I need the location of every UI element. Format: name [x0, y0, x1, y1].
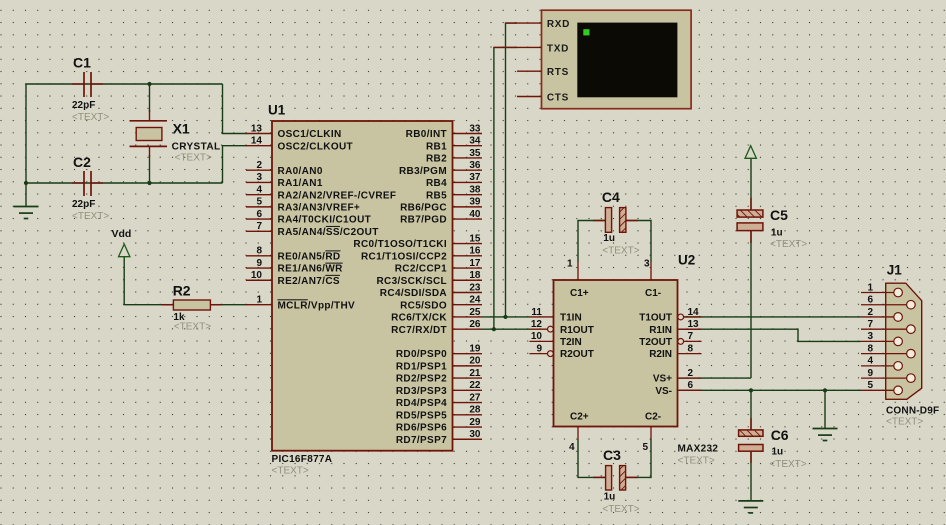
svg-text:26: 26 — [469, 319, 481, 330]
svg-text:RB4: RB4 — [426, 178, 447, 189]
svg-text:VS-: VS- — [655, 386, 672, 397]
U1 pin 10 RE2/AN7/CS — [246, 270, 340, 287]
U1 pin 13 OSC1/CLKIN — [246, 123, 342, 140]
svg-text:19: 19 — [469, 343, 481, 354]
wire C4 right to U2 pin3 — [626, 221, 651, 263]
svg-text:RB5: RB5 — [426, 190, 447, 201]
svg-text:<TEXT>: <TEXT> — [175, 153, 212, 164]
svg-text:Vdd: Vdd — [112, 228, 132, 240]
svg-text:RC1/T1OSI/CCP2: RC1/T1OSI/CCP2 — [361, 251, 447, 262]
U2 pin 1 C1+ top stub — [567, 259, 578, 281]
wire bottom rail up to OSC2 pin 14 — [223, 146, 248, 183]
wire terminal RXD vertical — [506, 23, 518, 317]
crystal X1 — [130, 110, 168, 157]
wire RC7/RX to R1OUT — [482, 328, 530, 330]
svg-text:C4: C4 — [602, 189, 620, 205]
wire ground lead left — [25, 183, 27, 207]
svg-text:RC2/CCP1: RC2/CCP1 — [395, 264, 447, 275]
capacitor C2 — [72, 171, 103, 196]
svg-text:4: 4 — [569, 442, 575, 453]
wire R1IN to J1 pin3 — [678, 329, 862, 341]
svg-text:C1+: C1+ — [570, 288, 589, 299]
U1 pin 4 RA2/AN2/VREF-/CVREF — [246, 184, 396, 201]
svg-text:2: 2 — [688, 368, 694, 379]
svg-text:37: 37 — [469, 172, 481, 183]
capacitor C1 — [72, 72, 103, 97]
U1 pin 20 RD1/PSP1 — [396, 356, 482, 373]
resistor R2 — [162, 300, 223, 310]
svg-text:2: 2 — [256, 160, 262, 171]
svg-text:22pF: 22pF — [72, 199, 95, 210]
wire power arrow to C5 top — [750, 159, 752, 210]
svg-text:RB7/PGD: RB7/PGD — [400, 215, 447, 226]
svg-text:14: 14 — [688, 307, 700, 318]
U1 pin 36 RB3/PGM — [399, 160, 482, 177]
terminal pin CTS — [517, 92, 569, 103]
svg-text:24: 24 — [469, 295, 481, 306]
wire top rail down to OSC1 pin 13 — [223, 84, 248, 134]
svg-text:<TEXT>: <TEXT> — [770, 239, 807, 250]
svg-text:RE2/AN7/CS: RE2/AN7/CS — [278, 276, 340, 287]
U2 pin 3 C1- top stub — [644, 259, 651, 281]
J1 pin 7 — [861, 319, 915, 334]
svg-text:C1: C1 — [73, 55, 91, 71]
svg-text:RB6/PGC: RB6/PGC — [400, 202, 447, 213]
svg-text:3: 3 — [867, 331, 873, 342]
wire crystal top lead — [149, 84, 151, 112]
svg-text:RC5/SDO: RC5/SDO — [400, 300, 447, 311]
U1 pin 16 RC1/T1OSI/CCP2 — [361, 246, 482, 263]
U1 pin 35 RB2 — [426, 148, 482, 165]
U1 pin 38 RB5 — [426, 184, 482, 201]
svg-text:CONN-D9F: CONN-D9F — [886, 406, 939, 417]
svg-text:7: 7 — [867, 319, 873, 330]
terminal pin RXD — [506, 19, 571, 30]
svg-text:8: 8 — [688, 343, 694, 354]
U1 pin 3 RA1/AN1 — [246, 172, 323, 189]
svg-text:4: 4 — [867, 356, 873, 367]
U1 pin 6 RA4/T0CKI/C1OUT — [246, 209, 371, 226]
U2 pin 5 C2- bottom stub — [642, 427, 651, 454]
svg-text:11: 11 — [531, 307, 542, 318]
node junction TXD-RX net — [492, 327, 496, 331]
U1 pin 1 MCLR/Vpp/THV — [246, 295, 355, 312]
svg-text:6: 6 — [256, 209, 262, 220]
J1 pin 6 — [861, 295, 915, 310]
capacitor C5 — [737, 198, 763, 243]
wire C1 top rail to OSC1 net — [26, 83, 223, 85]
U1 pin 25 RC6/TX/CK — [391, 307, 482, 324]
wire C6 top lead — [750, 390, 752, 430]
svg-text:<TEXT>: <TEXT> — [272, 466, 309, 477]
svg-text:VS+: VS+ — [653, 374, 672, 385]
U1 pin 21 RD2/PSP2 — [396, 368, 482, 385]
svg-text:T2OUT: T2OUT — [639, 337, 672, 348]
svg-text:RD2/PSP2: RD2/PSP2 — [396, 374, 447, 385]
svg-text:4: 4 — [256, 184, 262, 195]
svg-text:RE0/AN5/RD: RE0/AN5/RD — [278, 251, 341, 262]
svg-text:RA3/AN3/VREF+: RA3/AN3/VREF+ — [278, 202, 361, 213]
U2 pin 12 R1OUT — [530, 319, 594, 336]
svg-text:R2OUT: R2OUT — [560, 349, 594, 360]
J1 pin 2 — [861, 307, 902, 322]
capacitor C6 — [739, 418, 763, 463]
svg-text:35: 35 — [469, 148, 481, 159]
wire VS- to J1 pin5 — [678, 389, 862, 391]
wire C2 bottom rail — [26, 182, 223, 184]
svg-text:C3: C3 — [603, 447, 621, 463]
svg-text:C1-: C1- — [645, 288, 661, 299]
wire terminal TXD vertical — [494, 47, 517, 329]
svg-text:X1: X1 — [173, 121, 190, 137]
svg-text:RD7/PSP7: RD7/PSP7 — [396, 435, 447, 446]
svg-text:RD3/PSP3: RD3/PSP3 — [396, 386, 447, 397]
svg-text:5: 5 — [867, 380, 873, 391]
svg-text:C2: C2 — [73, 154, 91, 170]
svg-text:<TEXT>: <TEXT> — [886, 417, 923, 428]
svg-text:5: 5 — [642, 442, 648, 453]
svg-text:7: 7 — [688, 331, 694, 342]
U1 pin 37 RB4 — [426, 172, 482, 189]
svg-text:CRYSTAL: CRYSTAL — [172, 142, 221, 153]
ground (below VS- net near J1) — [813, 429, 838, 441]
node junction ground rail — [24, 181, 28, 185]
U1 pin 26 RC7/RX/DT — [391, 319, 482, 336]
svg-text:RC4/SDI/SDA: RC4/SDI/SDA — [380, 288, 447, 299]
U1 pin 34 RB1 — [426, 136, 482, 153]
capacitor C3 — [593, 466, 638, 490]
svg-text:18: 18 — [469, 270, 481, 281]
svg-text:9: 9 — [536, 343, 542, 354]
U2 pin 2 VS+ — [653, 368, 702, 385]
svg-text:R1IN: R1IN — [649, 325, 672, 336]
wire C5 bottom to VS+ net — [750, 231, 752, 379]
U1 pin 30 RD7/PSP7 — [396, 429, 482, 446]
svg-text:T2IN: T2IN — [560, 337, 582, 348]
svg-text:RC0/T1OSO/T1CKI: RC0/T1OSO/T1CKI — [353, 239, 447, 250]
op-amp U1 PIC16F877A body — [272, 121, 453, 451]
svg-text:R2IN: R2IN — [649, 349, 672, 360]
virtual terminal body — [542, 10, 692, 109]
node junction VS- ground — [823, 388, 827, 392]
U2 pin 7 T2OUT — [639, 331, 701, 348]
svg-text:<TEXT>: <TEXT> — [72, 211, 109, 222]
svg-text:7: 7 — [256, 221, 262, 232]
power arrow (VCC to C5) — [745, 146, 756, 159]
svg-text:T1IN: T1IN — [560, 313, 582, 324]
svg-text:36: 36 — [469, 160, 481, 171]
svg-text:25: 25 — [469, 307, 481, 318]
U2 pin 6 VS- — [655, 380, 701, 397]
svg-text:C5: C5 — [770, 207, 788, 223]
node junction C2-crystal bottom — [147, 181, 151, 185]
svg-text:R1OUT: R1OUT — [560, 325, 594, 336]
svg-text:<TEXT>: <TEXT> — [72, 112, 109, 123]
svg-text:TXD: TXD — [547, 43, 569, 54]
U1 pin 18 RC3/SCK/SCL — [376, 270, 482, 287]
U2 pin 4 C2+ bottom stub — [569, 427, 578, 454]
op-amp U2 MAX232 body — [554, 280, 678, 427]
svg-text:8: 8 — [256, 246, 262, 257]
svg-text:RB3/PGM: RB3/PGM — [399, 166, 447, 177]
svg-text:13: 13 — [251, 123, 263, 134]
svg-text:29: 29 — [469, 417, 481, 428]
wire crystal bottom lead — [149, 155, 151, 183]
svg-text:U1: U1 — [268, 103, 286, 118]
svg-text:14: 14 — [251, 136, 263, 147]
svg-text:13: 13 — [688, 319, 700, 330]
wire U2 pin4 to C3 left — [578, 439, 606, 477]
svg-text:10: 10 — [251, 270, 263, 281]
U2 pin 11 T1IN — [530, 307, 582, 324]
svg-text:22: 22 — [469, 380, 481, 391]
virtual terminal cursor — [583, 29, 589, 35]
ground (below C6) — [738, 501, 763, 513]
svg-text:30: 30 — [469, 429, 481, 440]
wire T1OUT to J1 pin2 — [684, 316, 861, 318]
svg-text:CTS: CTS — [547, 92, 569, 103]
svg-text:9: 9 — [867, 368, 873, 379]
svg-text:<TEXT>: <TEXT> — [769, 459, 806, 470]
svg-text:RA2/AN2/VREF-/CVREF: RA2/AN2/VREF-/CVREF — [278, 190, 397, 201]
U1 pin 28 RD5/PSP5 — [396, 405, 482, 422]
node junction C1-crystal top — [147, 82, 151, 86]
svg-text:RD0/PSP0: RD0/PSP0 — [396, 349, 447, 360]
terminal pin TXD — [494, 43, 569, 54]
svg-text:<TEXT>: <TEXT> — [174, 322, 211, 333]
svg-text:<TEXT>: <TEXT> — [602, 504, 639, 515]
U1 pin 27 RD4/PSP4 — [396, 392, 482, 409]
svg-text:8: 8 — [867, 343, 873, 354]
svg-text:1: 1 — [256, 295, 262, 306]
U1 pin 24 RC5/SDO — [400, 295, 482, 312]
svg-text:2: 2 — [867, 307, 873, 318]
svg-text:<TEXT>: <TEXT> — [602, 246, 639, 257]
U1 pin 15 RC0/T1OSO/T1CKI — [353, 233, 482, 250]
U1 pin 7 RA5/AN4/SS/C2OUT — [246, 221, 379, 238]
svg-text:RD1/PSP1: RD1/PSP1 — [396, 361, 447, 372]
U1 pin 33 RB0/INT — [406, 123, 482, 140]
svg-text:RE1/AN6/WR: RE1/AN6/WR — [278, 264, 344, 275]
wire ground lead right of J1 — [824, 390, 826, 428]
node junction RXD-TX net — [503, 315, 507, 319]
wire Vdd to R2 left — [124, 257, 173, 305]
U1 pin 39 RB6/PGC — [400, 197, 482, 214]
connector J1 CONN-D9F body — [886, 283, 922, 399]
wire VS+ to C5 — [678, 377, 752, 379]
svg-text:RD5/PSP5: RD5/PSP5 — [396, 410, 447, 421]
svg-text:RB2: RB2 — [426, 154, 447, 165]
svg-text:27: 27 — [469, 392, 481, 403]
terminal pin RTS — [517, 67, 569, 78]
wire R2 right to MCLR pin 1 — [210, 304, 247, 306]
svg-text:20: 20 — [469, 356, 481, 367]
power Vdd arrow — [119, 244, 130, 257]
svg-text:MAX232: MAX232 — [678, 444, 719, 455]
svg-text:RB0/INT: RB0/INT — [406, 129, 447, 140]
svg-text:1: 1 — [867, 282, 873, 293]
svg-text:T1OUT: T1OUT — [639, 313, 672, 324]
svg-text:<TEXT>: <TEXT> — [678, 456, 715, 467]
svg-text:40: 40 — [469, 209, 481, 220]
svg-text:6: 6 — [688, 380, 694, 391]
svg-text:33: 33 — [469, 123, 481, 134]
svg-text:17: 17 — [469, 258, 481, 269]
virtual terminal screen — [577, 23, 677, 98]
svg-text:3: 3 — [256, 172, 262, 183]
U2 pin 13 R1IN — [649, 319, 701, 336]
U2 pin 10 T2IN — [530, 331, 582, 348]
svg-text:21: 21 — [469, 368, 481, 379]
svg-text:R2: R2 — [173, 282, 191, 298]
svg-text:39: 39 — [469, 197, 481, 208]
J1 pin 4 — [861, 356, 902, 371]
J1 pin 1 — [861, 282, 902, 297]
U2 pin 8 R2IN — [649, 343, 701, 360]
svg-text:15: 15 — [469, 233, 481, 244]
svg-text:C2-: C2- — [645, 411, 661, 422]
svg-text:1u: 1u — [603, 233, 615, 244]
J1 pin 8 — [861, 343, 915, 358]
svg-text:RB1: RB1 — [426, 141, 447, 152]
svg-text:3: 3 — [644, 259, 650, 270]
svg-text:RTS: RTS — [547, 67, 569, 78]
svg-text:12: 12 — [531, 319, 543, 330]
svg-text:1u: 1u — [772, 446, 784, 457]
svg-text:RC6/TX/CK: RC6/TX/CK — [391, 313, 447, 324]
svg-text:RA0/AN0: RA0/AN0 — [278, 166, 323, 177]
svg-text:RD4/PSP4: RD4/PSP4 — [396, 398, 447, 409]
svg-text:OSC2/CLKOUT: OSC2/CLKOUT — [278, 141, 354, 152]
ground (left, below C2 rail) — [14, 207, 39, 219]
U1 pin 17 RC2/CCP1 — [395, 258, 482, 275]
U1 pin 29 RD6/PSP6 — [396, 417, 482, 434]
wire RC6/TX to T1IN — [482, 316, 530, 318]
svg-text:C2+: C2+ — [570, 411, 589, 422]
svg-text:RC7/RX/DT: RC7/RX/DT — [391, 325, 447, 336]
wire C3 right to U2 pin5 — [626, 439, 651, 477]
svg-text:23: 23 — [469, 282, 481, 293]
svg-text:38: 38 — [469, 184, 481, 195]
U1 pin 5 RA3/AN3/VREF+ — [246, 197, 360, 214]
wire C6 bottom lead — [750, 451, 752, 501]
svg-text:28: 28 — [469, 405, 481, 416]
svg-text:34: 34 — [469, 136, 481, 147]
svg-text:1: 1 — [567, 259, 573, 270]
svg-text:RA5/AN4/SS/C2OUT: RA5/AN4/SS/C2OUT — [278, 227, 379, 238]
svg-text:OSC1/CLKIN: OSC1/CLKIN — [278, 129, 342, 140]
U1 pin 9 RE1/AN6/WR — [246, 258, 343, 275]
svg-text:C6: C6 — [771, 427, 789, 443]
J1 pin 3 — [861, 331, 902, 346]
J1 pin 9 — [861, 368, 915, 383]
U1 pin 40 RB7/PGD — [400, 209, 482, 226]
U2 pin 9 R2OUT — [530, 343, 594, 360]
wire left vertical C1 to C2 — [25, 84, 27, 183]
J1 pin 5 — [861, 380, 902, 395]
U1 pin 23 RC4/SDI/SDA — [380, 282, 482, 299]
svg-text:9: 9 — [256, 258, 262, 269]
U1 pin 22 RD3/PSP3 — [396, 380, 482, 397]
wire U2 pin1 to C4 left — [578, 221, 605, 263]
svg-text:5: 5 — [256, 197, 262, 208]
svg-text:RA4/T0CKI/C1OUT: RA4/T0CKI/C1OUT — [278, 215, 372, 226]
svg-text:MCLR/Vpp/THV: MCLR/Vpp/THV — [278, 300, 356, 311]
svg-text:22pF: 22pF — [72, 100, 95, 111]
svg-text:J1: J1 — [887, 263, 903, 278]
U1 pin 19 RD0/PSP0 — [396, 343, 482, 360]
svg-text:RXD: RXD — [547, 19, 570, 30]
svg-text:PIC16F877A: PIC16F877A — [272, 454, 333, 465]
svg-text:1u: 1u — [604, 492, 616, 503]
svg-text:RC3/SCK/SCL: RC3/SCK/SCL — [376, 276, 447, 287]
U1 pin 14 OSC2/CLKOUT — [246, 136, 353, 153]
svg-text:U2: U2 — [678, 253, 695, 268]
svg-text:6: 6 — [867, 295, 873, 306]
svg-text:RA1/AN1: RA1/AN1 — [278, 178, 323, 189]
U1 pin 8 RE0/AN5/RD — [246, 246, 340, 263]
svg-text:16: 16 — [469, 246, 481, 257]
node junction VS- C6 — [749, 388, 753, 392]
U1 pin 2 RA0/AN0 — [246, 160, 323, 177]
svg-text:10: 10 — [531, 331, 543, 342]
capacitor C4 — [593, 208, 638, 233]
U2 pin 14 T1OUT — [639, 307, 701, 324]
svg-text:RD6/PSP6: RD6/PSP6 — [396, 423, 447, 434]
svg-text:1u: 1u — [771, 228, 783, 239]
